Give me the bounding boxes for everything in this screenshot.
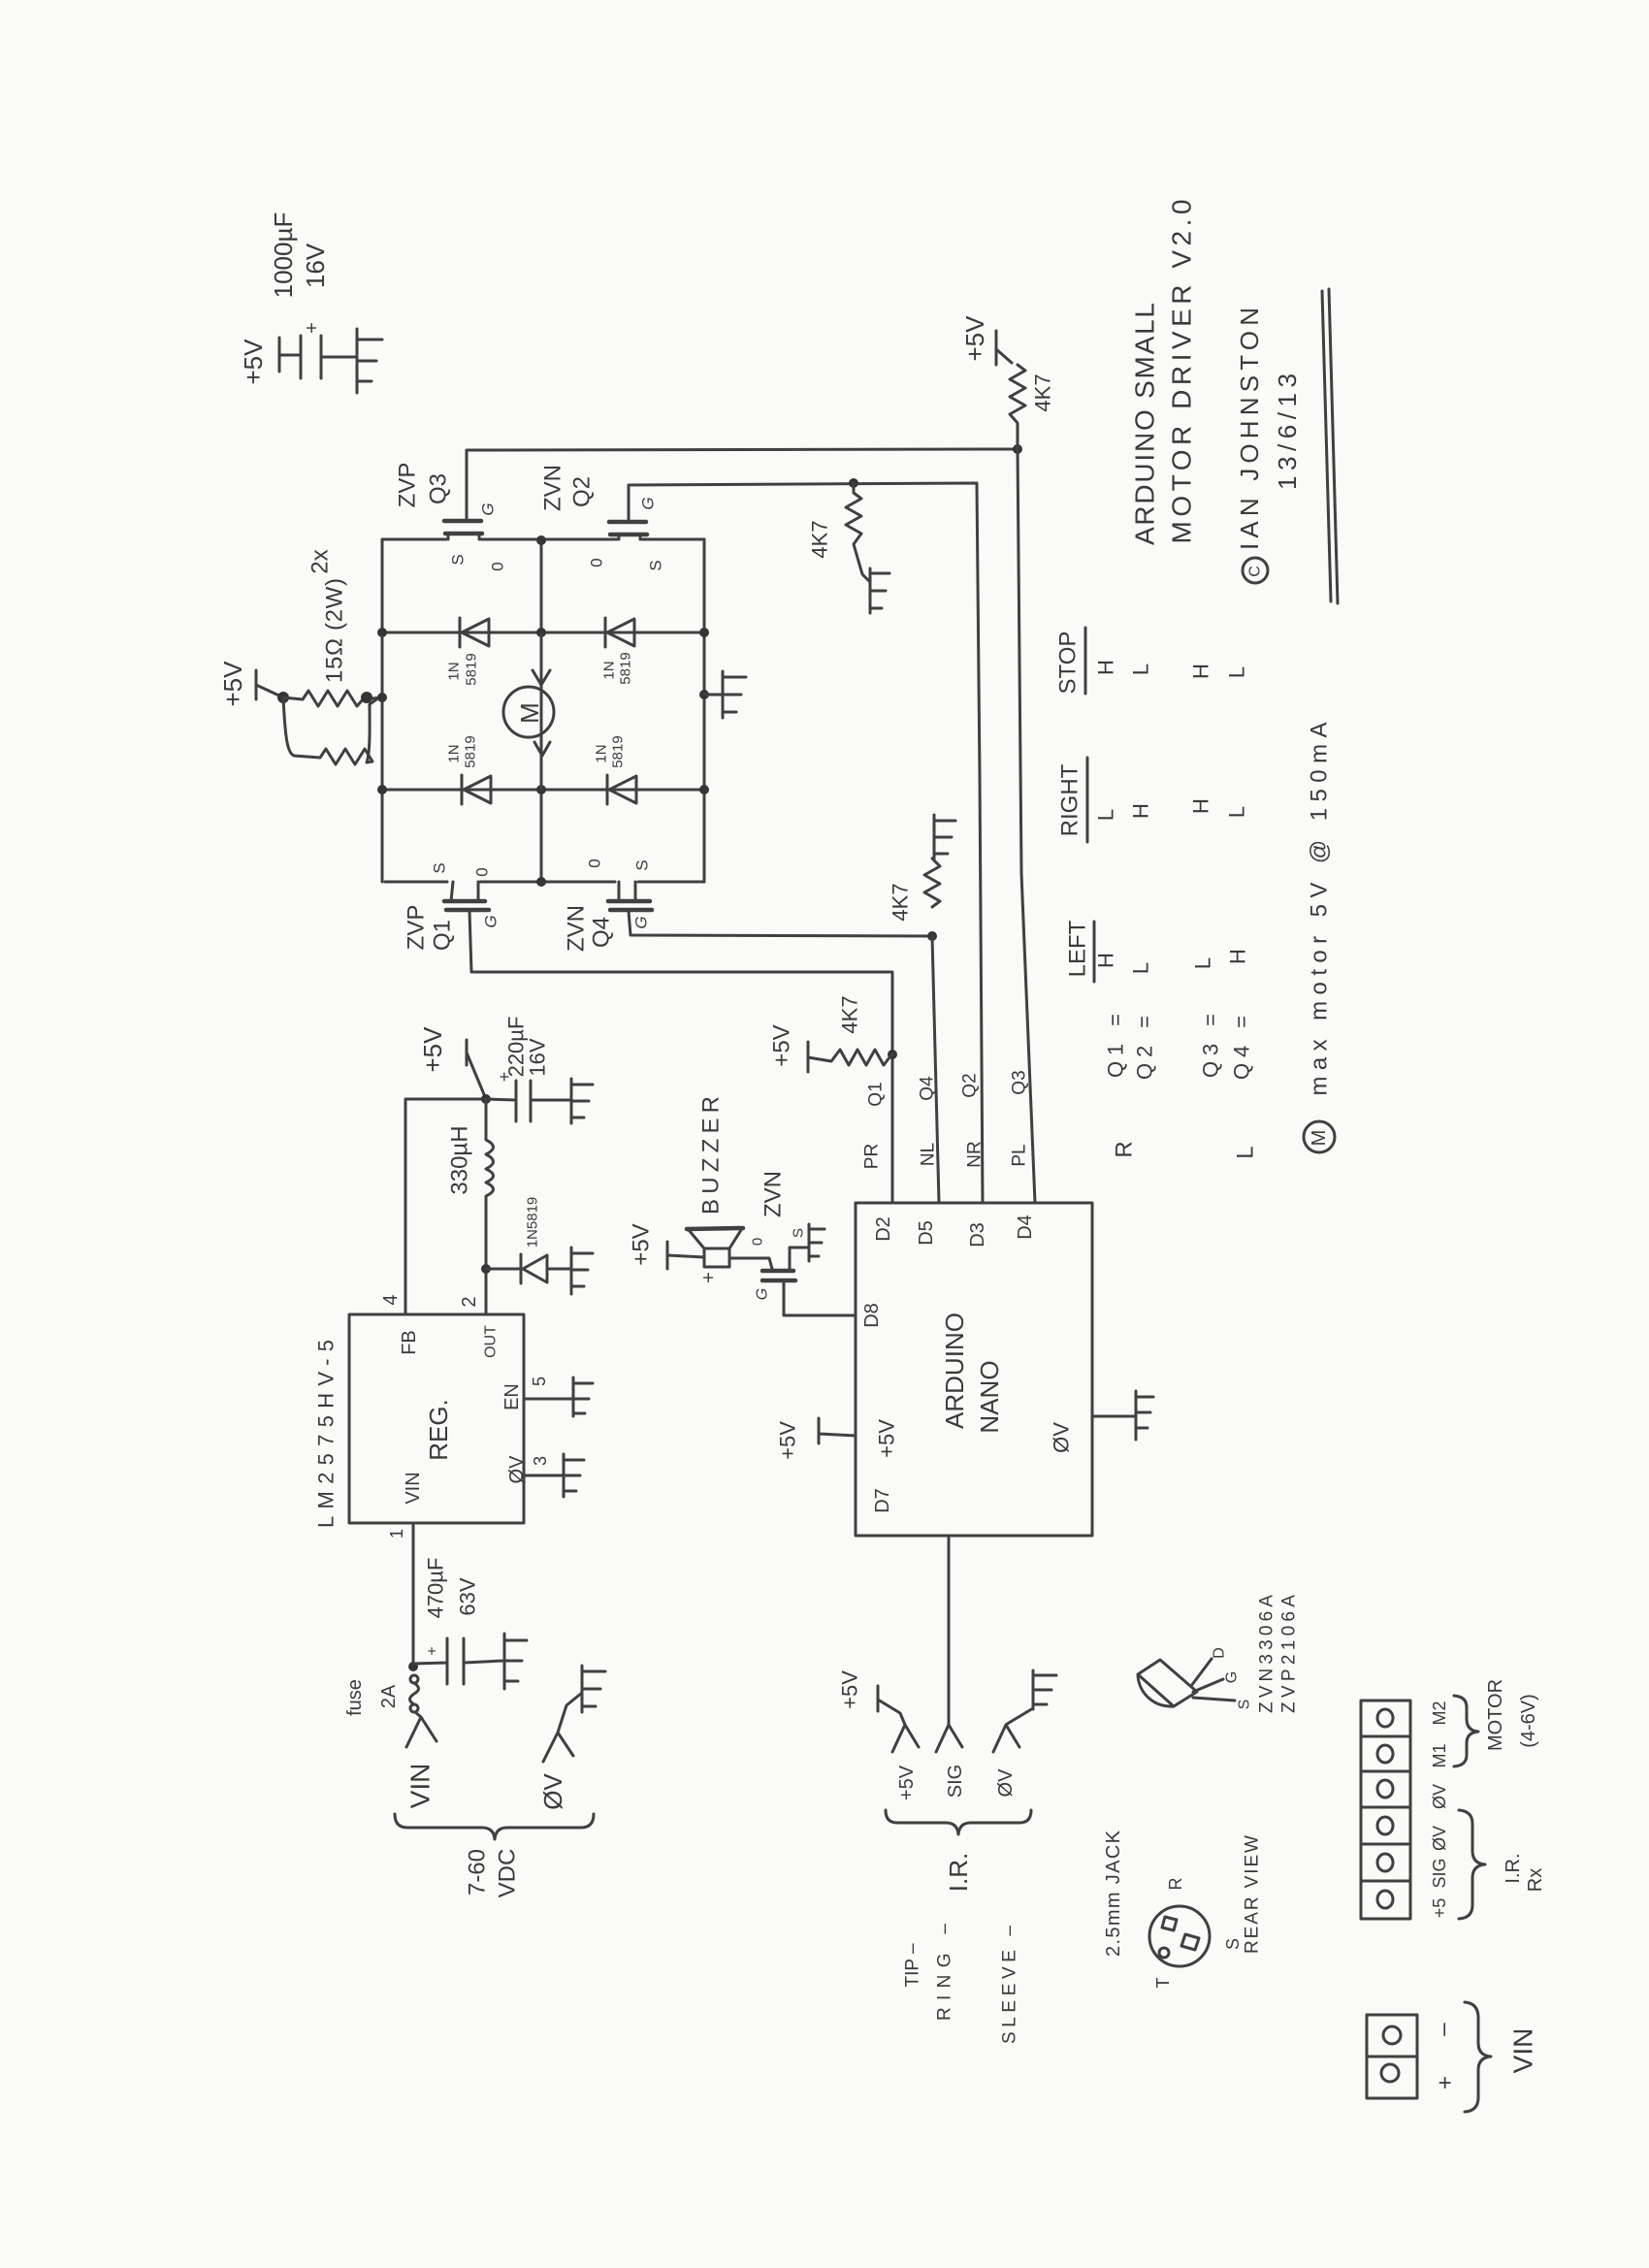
svg-text:D: D bbox=[1212, 1647, 1228, 1659]
svg-text:0: 0 bbox=[489, 562, 507, 570]
svg-text:D8: D8 bbox=[861, 1303, 883, 1328]
svg-text:STOP: STOP bbox=[1055, 632, 1082, 695]
svg-text:ØV: ØV bbox=[538, 1773, 567, 1810]
svg-text:D7: D7 bbox=[872, 1488, 893, 1513]
svg-text:IAN JOHNSTON: IAN JOHNSTON bbox=[1235, 308, 1264, 550]
svg-text:G: G bbox=[482, 915, 501, 927]
svg-text:4K7: 4K7 bbox=[808, 520, 832, 558]
svg-text:ARDUINO SMALL: ARDUINO SMALL bbox=[1130, 303, 1160, 545]
svg-text:L: L bbox=[1129, 962, 1153, 974]
svg-text:S: S bbox=[1237, 1700, 1253, 1710]
svg-text:M: M bbox=[515, 702, 544, 724]
svg-text:4K7: 4K7 bbox=[889, 883, 913, 921]
svg-text:G: G bbox=[639, 497, 658, 509]
svg-text:fuse: fuse bbox=[344, 1679, 366, 1716]
svg-text:1N: 1N bbox=[601, 661, 618, 679]
svg-text:1N: 1N bbox=[446, 744, 463, 762]
svg-text:ØV: ØV bbox=[506, 1455, 528, 1484]
svg-text:L: L bbox=[1225, 806, 1249, 818]
svg-text:VDC: VDC bbox=[495, 1849, 521, 1898]
svg-text:G: G bbox=[1224, 1671, 1241, 1683]
svg-text:+5V: +5V bbox=[960, 315, 989, 362]
svg-text:OUT: OUT bbox=[483, 1325, 500, 1358]
svg-text:NANO: NANO bbox=[975, 1360, 1004, 1433]
svg-text:63V: 63V bbox=[456, 1577, 480, 1615]
svg-text:Q4: Q4 bbox=[589, 917, 615, 948]
svg-text:5819: 5819 bbox=[463, 735, 479, 767]
svg-text:max motor 5V @ 150mA: max motor 5V @ 150mA bbox=[1307, 723, 1333, 1096]
svg-text:5819: 5819 bbox=[618, 652, 634, 684]
svg-text:3: 3 bbox=[531, 1456, 550, 1466]
svg-text:ZVP: ZVP bbox=[395, 463, 421, 508]
svg-text:PR: PR bbox=[862, 1144, 883, 1169]
svg-text:5819: 5819 bbox=[464, 653, 480, 685]
svg-text:H: H bbox=[1094, 953, 1118, 968]
svg-text:ZVN: ZVN bbox=[760, 1171, 787, 1217]
svg-text:0: 0 bbox=[588, 558, 606, 567]
svg-text:Q3 =: Q3 = bbox=[1199, 1014, 1223, 1078]
svg-text:Q2: Q2 bbox=[960, 1073, 981, 1097]
svg-text:+5: +5 bbox=[1430, 1898, 1449, 1919]
svg-text:Q4: Q4 bbox=[918, 1076, 938, 1101]
svg-text:R: R bbox=[1112, 1141, 1138, 1157]
svg-text:RIGHT: RIGHT bbox=[1057, 763, 1083, 836]
svg-text:Q3: Q3 bbox=[426, 473, 452, 504]
svg-text:REG.: REG. bbox=[424, 1399, 453, 1461]
svg-text:Q3: Q3 bbox=[1010, 1070, 1030, 1094]
svg-text:0: 0 bbox=[750, 1238, 766, 1246]
svg-text:15Ω (2W): 15Ω (2W) bbox=[322, 578, 348, 683]
svg-text:I.R.: I.R. bbox=[1503, 1853, 1524, 1883]
svg-text:H: H bbox=[1226, 949, 1250, 964]
svg-text:VIN: VIN bbox=[403, 1472, 424, 1504]
svg-text:+5V: +5V bbox=[838, 1670, 862, 1709]
svg-text:S: S bbox=[633, 859, 652, 870]
svg-text:SIG: SIG bbox=[945, 1765, 966, 1798]
svg-text:+5V: +5V bbox=[769, 1024, 795, 1066]
svg-text:470µF: 470µF bbox=[424, 1558, 448, 1619]
svg-text:ØV: ØV bbox=[1430, 1784, 1449, 1809]
svg-text:TIP –: TIP – bbox=[903, 1943, 923, 1987]
svg-text:FB: FB bbox=[399, 1330, 420, 1355]
svg-text:L: L bbox=[1129, 664, 1153, 675]
svg-text:G: G bbox=[632, 916, 651, 928]
svg-text:16V: 16V bbox=[526, 1038, 550, 1076]
svg-text:16V: 16V bbox=[301, 243, 330, 288]
svg-text:D2: D2 bbox=[873, 1216, 894, 1242]
svg-text:G: G bbox=[755, 1288, 771, 1300]
svg-text:ØV: ØV bbox=[995, 1768, 1017, 1798]
svg-text:+5V: +5V bbox=[218, 661, 247, 707]
svg-text:Q4 =: Q4 = bbox=[1230, 1016, 1254, 1080]
svg-text:M2: M2 bbox=[1430, 1701, 1449, 1725]
svg-text:4K7: 4K7 bbox=[1031, 373, 1055, 411]
svg-text:+: + bbox=[425, 1646, 441, 1655]
svg-text:+: + bbox=[1433, 2076, 1459, 2090]
svg-text:+5V: +5V bbox=[896, 1765, 918, 1800]
svg-text:0: 0 bbox=[473, 867, 492, 876]
svg-text:+5V: +5V bbox=[418, 1026, 447, 1073]
svg-text:+5V: +5V bbox=[776, 1421, 800, 1460]
svg-text:+: + bbox=[302, 322, 323, 334]
svg-text:M: M bbox=[1309, 1130, 1330, 1147]
svg-text:T: T bbox=[1153, 1978, 1173, 1989]
svg-text:1: 1 bbox=[387, 1529, 406, 1539]
svg-text:Q2: Q2 bbox=[569, 476, 596, 507]
svg-text:1N: 1N bbox=[446, 662, 463, 680]
svg-text:ZVN: ZVN bbox=[564, 905, 590, 952]
svg-text:(4-6V): (4-6V) bbox=[1518, 1694, 1539, 1748]
svg-text:SIG: SIG bbox=[1430, 1858, 1449, 1888]
svg-text:S: S bbox=[647, 560, 665, 570]
svg-text:ZVN: ZVN bbox=[540, 465, 566, 511]
svg-text:VIN: VIN bbox=[1508, 2028, 1538, 2074]
svg-text:5: 5 bbox=[530, 1377, 549, 1386]
svg-text:H: H bbox=[1189, 664, 1213, 679]
svg-text:L: L bbox=[1094, 809, 1118, 821]
svg-text:REAR VIEW: REAR VIEW bbox=[1243, 1835, 1263, 1954]
svg-text:L: L bbox=[1233, 1146, 1259, 1158]
svg-text:330µH: 330µH bbox=[447, 1125, 473, 1194]
svg-text:1N: 1N bbox=[594, 744, 610, 762]
svg-text:H: H bbox=[1189, 798, 1213, 814]
svg-text:ØV: ØV bbox=[1050, 1422, 1074, 1453]
svg-text:S: S bbox=[1223, 1938, 1243, 1950]
svg-text:–: – bbox=[1431, 2023, 1457, 2036]
svg-text:H: H bbox=[1129, 803, 1153, 819]
svg-text:R: R bbox=[1166, 1878, 1185, 1891]
svg-text:S: S bbox=[431, 862, 449, 873]
svg-text:L: L bbox=[1191, 957, 1215, 969]
svg-text:D5: D5 bbox=[916, 1220, 937, 1246]
svg-text:ØV: ØV bbox=[1430, 1826, 1449, 1851]
svg-text:ARDUINO: ARDUINO bbox=[940, 1312, 969, 1429]
svg-text:Q1 =: Q1 = bbox=[1104, 1014, 1128, 1078]
svg-text:VIN: VIN bbox=[405, 1764, 436, 1809]
svg-text:+5V: +5V bbox=[239, 339, 268, 385]
svg-text:S: S bbox=[449, 554, 468, 565]
svg-text:0: 0 bbox=[586, 859, 604, 867]
svg-text:+5V: +5V bbox=[629, 1223, 655, 1265]
svg-text:LEFT: LEFT bbox=[1065, 920, 1091, 977]
svg-text:1000µF: 1000µF bbox=[269, 212, 298, 299]
svg-text:H: H bbox=[1094, 660, 1118, 675]
svg-text:D3: D3 bbox=[967, 1222, 988, 1247]
svg-text:ZVP: ZVP bbox=[404, 905, 430, 951]
svg-text:M1: M1 bbox=[1430, 1743, 1449, 1767]
svg-text:I.R.: I.R. bbox=[944, 1853, 973, 1892]
svg-text:G: G bbox=[479, 502, 498, 515]
svg-text:1N5819: 1N5819 bbox=[525, 1197, 541, 1248]
svg-text:MOTOR DRIVER V2.0: MOTOR DRIVER V2.0 bbox=[1167, 200, 1197, 544]
svg-text:D4: D4 bbox=[1015, 1215, 1036, 1240]
svg-text:MOTOR: MOTOR bbox=[1485, 1679, 1506, 1751]
svg-text:+: + bbox=[698, 1272, 720, 1283]
svg-text:C: C bbox=[1247, 566, 1264, 577]
svg-text:NL: NL bbox=[919, 1143, 939, 1166]
svg-text:S: S bbox=[791, 1228, 807, 1238]
svg-text:2.5mm JACK: 2.5mm JACK bbox=[1103, 1830, 1124, 1957]
svg-text:4: 4 bbox=[380, 1294, 402, 1305]
svg-text:2: 2 bbox=[459, 1296, 480, 1307]
svg-text:Q2 =: Q2 = bbox=[1133, 1016, 1157, 1080]
svg-text:Q1: Q1 bbox=[430, 920, 456, 951]
svg-text:4K7: 4K7 bbox=[838, 995, 862, 1033]
svg-text:+5V: +5V bbox=[875, 1419, 899, 1458]
svg-text:SLEEVE –: SLEEVE – bbox=[1000, 1926, 1020, 2044]
svg-text:Q1: Q1 bbox=[866, 1082, 887, 1106]
svg-text:EN: EN bbox=[501, 1383, 523, 1410]
svg-text:2x: 2x bbox=[307, 549, 334, 573]
svg-text:PL: PL bbox=[1010, 1144, 1030, 1166]
svg-text:Rx: Rx bbox=[1525, 1868, 1546, 1892]
svg-text:5819: 5819 bbox=[610, 735, 627, 767]
svg-text:L: L bbox=[1225, 666, 1249, 678]
svg-text:NR: NR bbox=[965, 1141, 986, 1167]
svg-text:7-60: 7-60 bbox=[465, 1849, 491, 1895]
svg-text:2A: 2A bbox=[378, 1684, 400, 1708]
